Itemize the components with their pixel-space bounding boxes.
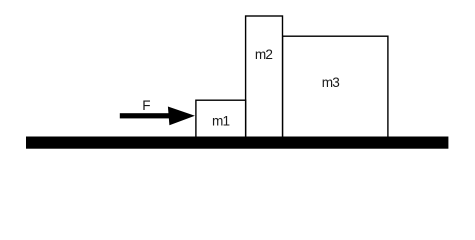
- svg-text:m2: m2: [255, 47, 273, 62]
- svg-text:F: F: [142, 98, 150, 113]
- svg-text:m3: m3: [322, 75, 340, 90]
- svg-text:m1: m1: [212, 114, 230, 129]
